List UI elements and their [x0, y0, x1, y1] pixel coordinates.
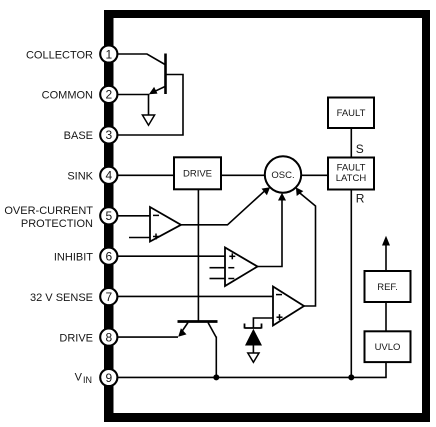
block DRIVE: [174, 157, 221, 189]
wire A3 plus input from zener: [253, 318, 273, 328]
svg-text:UVLO: UVLO: [375, 342, 401, 353]
reference arrow output: [382, 236, 390, 271]
svg-text:1: 1: [105, 47, 112, 61]
pin 5: [100, 207, 117, 224]
pin 9: [100, 369, 117, 386]
svg-text:S: S: [356, 142, 364, 156]
pin 1: [100, 45, 117, 62]
oscillator OSC: [265, 156, 301, 192]
wire A3 output to OSC: [296, 187, 316, 306]
wire FAULT LATCH R to VIN rail: [350, 190, 352, 378]
wire pin5 to comparator A1: [117, 215, 150, 217]
pin 3: [100, 126, 117, 143]
wire DRIVE to Q2 base: [197, 189, 199, 321]
svg-text:COLLECTOR: COLLECTOR: [26, 49, 93, 61]
label 32 V SENSE: [30, 292, 93, 304]
pin 6: [100, 248, 117, 265]
label R: [356, 192, 365, 206]
wire Q1 base to pin3: [117, 75, 183, 136]
svg-text:9: 9: [105, 371, 112, 385]
svg-text:R: R: [356, 192, 365, 206]
block REF: [365, 271, 411, 302]
wire Q2 collector to VIN rail: [215, 337, 217, 378]
wire FAULT to FAULT LATCH (S input): [350, 128, 352, 158]
pin 8: [100, 329, 117, 346]
wire pin2 to Q1 emitter: [117, 94, 150, 96]
junction dot Q2 rail: [213, 374, 219, 380]
op-amp A2 (inhibit comparator): [225, 248, 258, 287]
svg-text:IN: IN: [83, 375, 92, 385]
label OVER-CURRENT PROTECTION: [4, 205, 93, 230]
label DRIVE: [59, 332, 93, 344]
wire VIN rail pin9 to UVLO: [117, 362, 386, 377]
svg-text:DRIVE: DRIVE: [59, 332, 93, 344]
ground below zener: [248, 353, 259, 362]
pin 2: [100, 86, 117, 103]
wire DRIVE to OSC: [221, 174, 265, 176]
wire A2 output to OSC: [258, 193, 287, 267]
label SINK: [67, 171, 93, 183]
wire pin6 to comparator A2: [117, 255, 225, 257]
wire pin4 to DRIVE: [117, 174, 174, 176]
label COMMON: [42, 90, 93, 102]
wire pin7 to comparator A3: [117, 295, 273, 297]
wire pin1 to Q1 collector: [117, 54, 165, 65]
svg-text:5: 5: [105, 209, 112, 223]
svg-text:OVER-CURRENT: OVER-CURRENT: [4, 205, 93, 217]
svg-text:DRIVE: DRIVE: [183, 169, 212, 180]
IC package outline frame: [104, 10, 430, 422]
label INHIBIT: [54, 252, 93, 264]
zener diode D1: [245, 324, 263, 346]
wire OSC to FAULT LATCH: [301, 174, 328, 176]
svg-text:4: 4: [105, 169, 112, 183]
block UVLO: [365, 331, 411, 362]
label BASE: [64, 130, 93, 142]
label COLLECTOR: [26, 49, 93, 61]
svg-text:PROTECTION: PROTECTION: [21, 218, 93, 230]
svg-text:7: 7: [105, 290, 112, 304]
svg-text:COMMON: COMMON: [42, 90, 93, 102]
op-amp A1 (over-current comparator): [150, 207, 181, 242]
svg-text:INHIBIT: INHIBIT: [54, 252, 93, 264]
transistor Q2: [178, 322, 218, 338]
svg-text:6: 6: [105, 250, 112, 264]
label VIN: [75, 371, 92, 385]
block FAULT LATCH: [328, 158, 374, 190]
label S: [356, 142, 364, 156]
wire zener to ground: [252, 346, 254, 354]
svg-text:V: V: [75, 371, 83, 383]
svg-text:SINK: SINK: [67, 171, 93, 183]
transistor Q1: [149, 54, 166, 95]
junction dot R rail: [348, 374, 354, 380]
svg-text:32 V SENSE: 32 V SENSE: [30, 292, 93, 304]
svg-text:3: 3: [105, 128, 112, 142]
svg-text:OSC.: OSC.: [271, 170, 294, 181]
svg-text:REF.: REF.: [377, 282, 398, 293]
wire A2 minus stub 1: [210, 267, 226, 269]
wire pin8 to Q2 emitter: [117, 336, 178, 338]
svg-text:FAULT: FAULT: [337, 162, 366, 173]
wire A1 plus input stub: [129, 237, 150, 239]
svg-text:LATCH: LATCH: [336, 173, 367, 184]
svg-text:2: 2: [105, 88, 112, 102]
svg-text:BASE: BASE: [64, 130, 93, 142]
ground at Q1 emitter: [142, 95, 154, 126]
wire REF to UVLO: [385, 302, 387, 331]
svg-text:FAULT: FAULT: [337, 108, 366, 119]
op-amp A3 (32V sense comparator): [273, 287, 304, 326]
wire A1 output to OSC: [181, 187, 270, 225]
pin 7: [100, 288, 117, 305]
wire A2 minus stub 2: [210, 278, 226, 280]
block FAULT: [328, 98, 374, 129]
pin 4: [100, 167, 117, 184]
svg-text:8: 8: [105, 330, 112, 344]
